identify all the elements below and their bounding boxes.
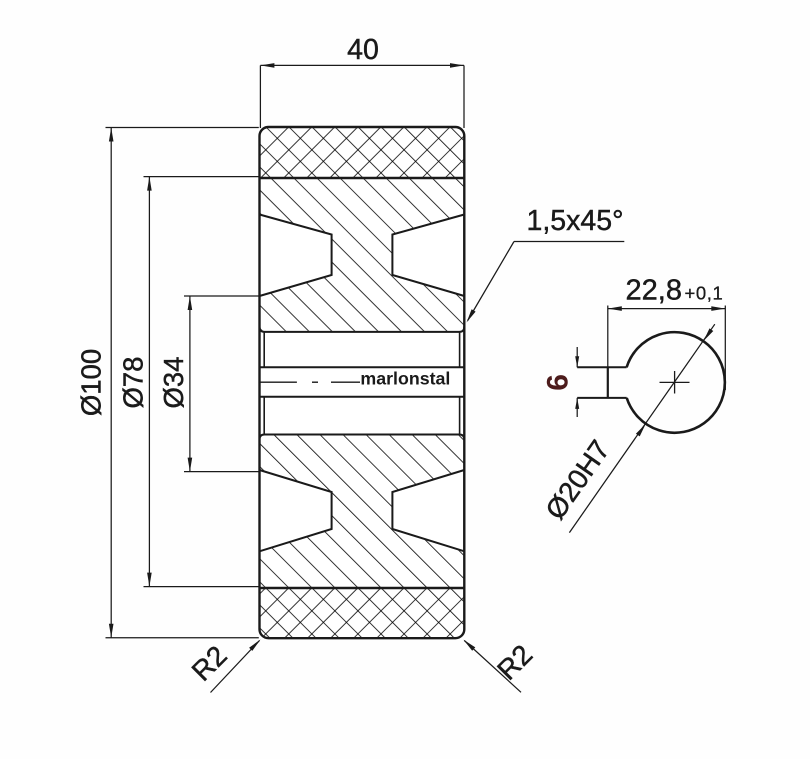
svg-text:40: 40 (347, 34, 379, 66)
svg-text:6: 6 (542, 374, 575, 391)
svg-text:1,5x45°: 1,5x45° (527, 205, 624, 237)
svg-text:Ø78: Ø78 (118, 357, 149, 409)
svg-text:Ø34: Ø34 (158, 357, 189, 409)
svg-text:Ø100: Ø100 (76, 349, 107, 416)
svg-text:marlonstal: marlonstal (360, 369, 450, 389)
svg-text:22,8: 22,8 (626, 275, 682, 307)
svg-text:+0,1: +0,1 (685, 283, 724, 304)
